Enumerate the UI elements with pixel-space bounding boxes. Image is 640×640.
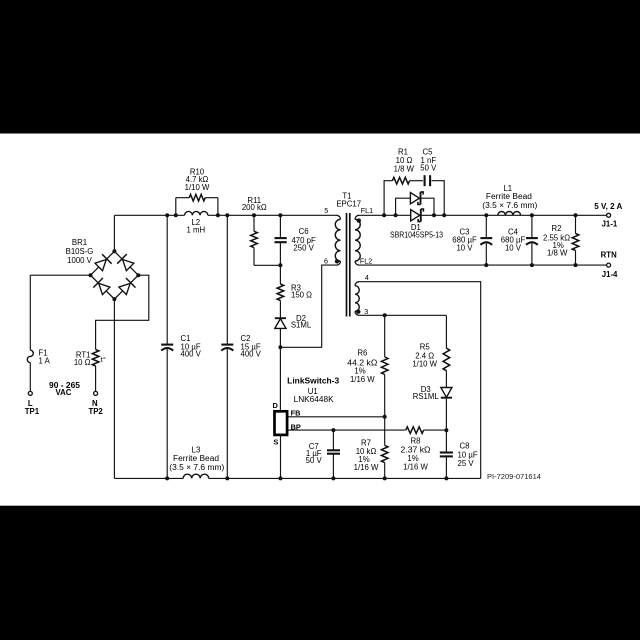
resistor R7 — [384, 417, 386, 446]
wire top rail left — [114, 214, 184, 216]
node D pin junction — [278, 345, 282, 349]
node C3 top — [484, 213, 488, 217]
svg-text:1000 V: 1000 V — [67, 256, 93, 265]
svg-text:VAC: VAC — [56, 388, 72, 397]
wire pin6 to node — [280, 265, 336, 347]
svg-text:1/10 W: 1/10 W — [412, 359, 437, 368]
capacitor C4 — [531, 215, 533, 238]
svg-text:RS1ML: RS1ML — [413, 392, 440, 401]
node R2 top — [574, 213, 578, 217]
diode D1 upper half — [410, 193, 419, 204]
svg-text:10 V: 10 V — [456, 244, 473, 253]
capacitor C1 — [166, 215, 168, 344]
wire BR1 right to RT1 — [96, 275, 149, 349]
wire RT1 to TP2 — [95, 366, 97, 391]
wire L input to BR1 left — [30, 274, 90, 276]
terminal J1-4 — [607, 263, 611, 267]
wire D3 to BP node — [445, 398, 447, 431]
svg-text:10 Ω: 10 Ω — [74, 358, 91, 367]
svg-text:5 V, 2 A: 5 V, 2 A — [594, 202, 622, 211]
node R11 C6 bottom — [278, 263, 282, 267]
node BR1 right — [136, 273, 140, 277]
wire top rail mid — [208, 214, 337, 216]
svg-text:EPC17: EPC17 — [336, 199, 361, 208]
svg-text:Ferrite Bead: Ferrite Bead — [173, 454, 219, 463]
terminal J1-1 — [607, 213, 611, 217]
wire pin3 corner down — [445, 315, 447, 348]
svg-text:1/16 W: 1/16 W — [403, 463, 428, 472]
wire F1 branch upper — [29, 275, 31, 350]
resistor R6 — [384, 315, 386, 357]
node BR1 bottom — [112, 297, 116, 301]
wire FB — [288, 416, 385, 418]
svg-text:FB: FB — [291, 409, 301, 418]
resistor R8 — [406, 427, 424, 434]
wire D1 upper branch — [396, 198, 411, 215]
inductor L2 — [185, 211, 208, 215]
resistor R10 — [189, 194, 205, 201]
node S bottom — [279, 476, 283, 480]
svg-text:Ferrite Bead: Ferrite Bead — [486, 192, 532, 201]
svg-text:1%: 1% — [407, 454, 418, 463]
phasing dot secondary — [357, 218, 361, 222]
thermistor RT1 — [92, 350, 99, 367]
transformer T1 core — [346, 213, 348, 317]
wire BP — [288, 429, 406, 431]
bridge BR1 arms — [91, 251, 139, 299]
capacitor C8 — [445, 430, 447, 452]
wire FL2 rail — [359, 264, 607, 266]
svg-text:C8: C8 — [460, 442, 470, 451]
svg-text:10 V: 10 V — [505, 244, 522, 253]
node BP C7 — [331, 428, 335, 432]
node L2 right — [216, 213, 220, 217]
wire snubber loop — [384, 181, 392, 216]
svg-text:50 V: 50 V — [420, 163, 437, 172]
node D1 branch left — [394, 213, 398, 217]
wire R10 loop right — [205, 197, 218, 199]
wire D2 to node — [279, 328, 281, 347]
svg-text:C5: C5 — [423, 147, 434, 156]
inductor L3 — [183, 474, 209, 478]
svg-text:LNK6448K: LNK6448K — [294, 395, 335, 404]
svg-text:S: S — [273, 437, 278, 446]
transformer T1 secondary winding — [355, 215, 359, 219]
svg-text:J1-4: J1-4 — [602, 270, 618, 279]
wire U1 source — [280, 436, 282, 479]
node R7 bottom — [383, 476, 387, 480]
capacitor C7 — [332, 430, 334, 450]
phasing dot bias — [356, 310, 360, 314]
diode D2 — [275, 317, 286, 319]
transformer T1 primary winding — [337, 215, 341, 219]
bridge diode top-right — [123, 260, 134, 271]
node C2 top — [225, 213, 229, 217]
svg-text:1 A: 1 A — [39, 357, 51, 366]
node C4 bottom — [530, 263, 534, 267]
svg-text:R5: R5 — [420, 343, 431, 352]
wire R8 to node — [424, 429, 447, 431]
bridge diode bottom-right — [119, 283, 130, 294]
op U1 LinkSwitch body — [275, 411, 288, 435]
node snubber right — [442, 213, 446, 217]
svg-text:R1: R1 — [398, 147, 408, 156]
svg-text:5: 5 — [324, 206, 328, 215]
svg-text:FL2: FL2 — [360, 257, 372, 266]
bridge diode top-left — [95, 260, 106, 271]
diode D1 lower half — [411, 210, 420, 221]
node R2 bottom — [574, 263, 578, 267]
svg-text:TP2: TP2 — [88, 407, 103, 416]
svg-text:R2: R2 — [552, 224, 562, 233]
transformer T1 bias winding — [355, 282, 359, 286]
node R11 top — [252, 213, 256, 217]
node C2 bottom — [225, 476, 229, 480]
node FB — [383, 415, 387, 419]
resistor R1 — [392, 177, 409, 184]
node C4 top — [530, 213, 534, 217]
resistor R3 — [277, 284, 284, 301]
wire pin3 rail — [359, 314, 446, 316]
wire BR1 bottom to ground rail — [113, 299, 115, 478]
node C1 top — [165, 213, 169, 217]
svg-text:D: D — [273, 401, 279, 410]
svg-text:200 kΩ: 200 kΩ — [242, 203, 267, 212]
svg-text:PI-7209-071614: PI-7209-071614 — [487, 474, 541, 481]
node snubber left — [382, 213, 386, 217]
svg-text:B10S-G: B10S-G — [66, 247, 94, 256]
svg-text:R6: R6 — [357, 349, 367, 358]
svg-text:R8: R8 — [411, 436, 421, 445]
svg-text:4: 4 — [365, 273, 369, 282]
capacitor C6 — [279, 215, 281, 237]
terminal TP1 — [28, 391, 32, 395]
node C3 bottom — [484, 263, 488, 267]
bridge diode bottom-left — [99, 283, 110, 294]
diode D3 — [441, 397, 452, 399]
svg-text:J1-1: J1-1 — [602, 220, 618, 229]
capacitor C3 — [485, 215, 487, 238]
wire bottom rail right — [209, 477, 481, 479]
svg-text:400 V: 400 V — [181, 350, 202, 359]
resistor R11 — [253, 215, 255, 231]
svg-text:1 mH: 1 mH — [186, 226, 205, 235]
svg-text:400 V: 400 V — [241, 350, 262, 359]
wire R10 loop left — [175, 198, 177, 216]
capacitor C5 — [424, 175, 426, 186]
wire BR1 top to rail — [113, 215, 115, 251]
svg-text:6: 6 — [324, 257, 328, 266]
wire R3 to D2 — [279, 301, 281, 319]
svg-text:1/8 W: 1/8 W — [547, 249, 568, 258]
svg-text:S1ML: S1ML — [291, 321, 312, 330]
node C6 top — [278, 213, 282, 217]
wire node to U1 drain — [279, 347, 281, 410]
svg-text:150 Ω: 150 Ω — [291, 290, 312, 299]
node C1 bottom — [165, 476, 169, 480]
svg-text:TP1: TP1 — [25, 407, 40, 416]
svg-text:(3.5 × 7.6 mm): (3.5 × 7.6 mm) — [169, 463, 224, 472]
svg-text:BR1: BR1 — [72, 238, 87, 247]
resistor R5 — [443, 348, 450, 371]
wire C6 to R3 — [279, 265, 281, 284]
svg-text:BP: BP — [291, 422, 301, 431]
svg-text:SBR1045SP5-13: SBR1045SP5-13 — [390, 230, 443, 239]
inductor L1 — [498, 212, 521, 216]
node C8 bottom — [444, 476, 448, 480]
capacitor C2 — [226, 215, 228, 344]
terminal TP2 — [94, 391, 98, 395]
node L2 left — [174, 213, 178, 217]
node BR1 left — [89, 273, 93, 277]
wire pin4 return — [359, 282, 481, 479]
wire R5 to D3 — [445, 371, 447, 389]
resistor R2 — [575, 215, 577, 233]
wire bottom rail left — [114, 477, 183, 479]
svg-text:1/16 W: 1/16 W — [354, 463, 379, 472]
node D1 branch right — [432, 213, 436, 217]
phasing dot primary — [335, 259, 339, 263]
svg-text:FL1: FL1 — [361, 206, 373, 215]
wire F1 to TP1 — [29, 363, 31, 392]
wire secondary rail left — [359, 214, 411, 216]
svg-text:R7: R7 — [361, 438, 371, 447]
node BR1 top — [112, 249, 116, 253]
svg-text:t°: t° — [101, 355, 106, 364]
svg-text:25 V: 25 V — [458, 459, 475, 468]
svg-text:10 µF: 10 µF — [458, 450, 478, 459]
node C7 bottom — [331, 476, 335, 480]
svg-text:(3.5 × 7.6 mm): (3.5 × 7.6 mm) — [482, 201, 537, 210]
svg-text:1/16 W: 1/16 W — [350, 375, 375, 384]
svg-text:1/8 W: 1/8 W — [394, 164, 415, 173]
node BP R8 C8 — [444, 428, 448, 432]
svg-text:C6: C6 — [299, 227, 309, 236]
node R6 top — [383, 313, 387, 317]
fuse F1 — [27, 350, 33, 362]
svg-text:250 V: 250 V — [293, 244, 314, 253]
wire secondary rail right — [421, 214, 606, 216]
svg-text:1/10 W: 1/10 W — [185, 183, 210, 192]
svg-text:RTN: RTN — [601, 250, 617, 259]
svg-text:50 V: 50 V — [306, 456, 323, 465]
svg-text:LinkSwitch-3: LinkSwitch-3 — [287, 377, 340, 386]
